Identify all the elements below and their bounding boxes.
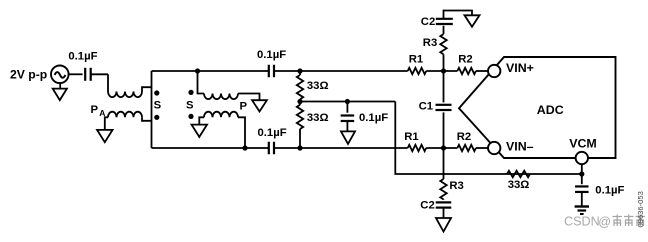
svg-text:0.1µF: 0.1µF <box>258 127 287 139</box>
svg-text:C2: C2 <box>420 200 434 212</box>
svg-text:P: P <box>91 104 99 116</box>
svg-text:A: A <box>99 108 105 118</box>
svg-text:VIN+: VIN+ <box>506 61 534 75</box>
svg-text:33Ω: 33Ω <box>307 80 329 92</box>
svg-text:0.1µF: 0.1µF <box>68 51 97 63</box>
svg-text:0.1µF: 0.1µF <box>359 112 388 124</box>
svg-text:VIN–: VIN– <box>506 139 534 153</box>
svg-text:ADC: ADC <box>537 103 564 117</box>
svg-text:0.1µF: 0.1µF <box>257 49 286 61</box>
svg-text:C2: C2 <box>421 16 435 28</box>
svg-text:R3: R3 <box>449 180 463 192</box>
svg-text:R2: R2 <box>458 54 472 66</box>
svg-text:S: S <box>154 100 162 112</box>
svg-text:R3: R3 <box>423 37 437 49</box>
svg-text:R1: R1 <box>409 54 423 66</box>
svg-text:S: S <box>186 100 194 112</box>
svg-text:R2: R2 <box>457 131 471 143</box>
svg-text:P: P <box>240 101 248 113</box>
svg-text:@: @ <box>598 215 611 229</box>
svg-text:0.1µF: 0.1µF <box>595 184 624 196</box>
svg-text:VCM: VCM <box>569 136 597 150</box>
svg-text:33Ω: 33Ω <box>307 112 329 124</box>
svg-text:CSDN: CSDN <box>564 215 600 229</box>
svg-text:R1: R1 <box>404 131 418 143</box>
svg-text:09636-053: 09636-053 <box>636 191 645 227</box>
svg-text:C1: C1 <box>419 100 433 112</box>
svg-text:33Ω: 33Ω <box>508 179 530 191</box>
svg-text:2V p-p: 2V p-p <box>10 67 47 81</box>
